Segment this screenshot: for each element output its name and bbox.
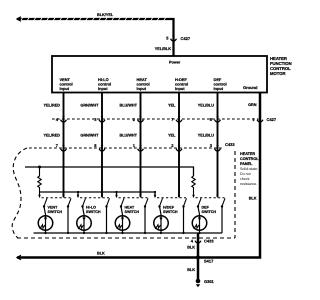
svg-text:HEATER: HEATER [270,56,287,61]
connector C433 dashed line [29,147,222,149]
connector C427 pin symbol 1 [62,116,65,119]
ground G301 [196,279,201,284]
wire lamp bus (line B) [40,191,156,194]
connector C427 pin symbol 3 [139,116,142,119]
svg-text:HEATER: HEATER [240,152,255,157]
connector C427 pin symbol 6 [259,116,262,119]
svg-text:control: control [214,82,227,87]
connector C427 pin symbol 4 [178,116,181,119]
lamp DEF illumination [192,216,207,231]
svg-text:DEF: DEF [214,78,222,83]
svg-text:1: 1 [133,144,136,149]
wire switch H/DEF output [182,207,184,234]
svg-text:SWITCH: SWITCH [48,210,63,215]
switch DEF left arm [198,198,201,206]
connector C433 pin symbol 2 [101,145,104,148]
switch H/DEF linkage dashes [157,197,186,199]
svg-text:Ground: Ground [243,86,257,91]
svg-text:7: 7 [56,144,59,149]
svg-text:GRN: GRN [248,103,256,108]
wire texture hatching [21,17,167,21]
svg-text:YEL/BLK: YEL/BLK [155,47,172,52]
node R1 on line A [38,166,41,169]
wire DEF control (YEL/BLU) [216,93,220,198]
svg-text:resistance.: resistance. [240,182,257,187]
svg-text:1: 1 [252,118,255,123]
svg-text:SWITCH: SWITCH [86,210,101,215]
svg-text:BLK: BLK [97,251,105,256]
svg-text:7: 7 [171,118,174,123]
switch HEAT right arm [145,198,148,206]
svg-text:YEL/BLU: YEL/BLU [198,103,215,108]
svg-text:input: input [98,87,108,92]
svg-text:Solid-state:: Solid-state: [240,167,258,172]
svg-text:GRN/WHT: GRN/WHT [80,133,98,138]
switch VENT left arm [44,198,47,206]
switch DEF linkage dashes [196,197,225,199]
connector C433 pin symbol 5 [216,145,219,148]
wire BLK/YEL top feed [17,19,174,56]
svg-text:G301: G301 [204,280,214,285]
lamp VENT illumination [38,216,53,231]
connector C433 pin symbol 1 [62,145,65,148]
switch H/DEF right arm [184,198,187,206]
switch VENT right arm [68,198,71,206]
connector C433 pin symbol 3 [139,145,142,148]
svg-text:DEF: DEF [202,205,210,210]
wire lamp VENT top [44,207,46,234]
lamp HI-LO illumination [77,216,92,231]
svg-text:PANEL: PANEL [240,162,253,167]
wire VENT control (YEL/RED) [62,93,66,198]
svg-text:input: input [175,87,185,92]
wire lamp HEAT top [121,207,123,234]
svg-text:Power: Power [169,60,180,65]
wire Ground GRN/BLK right side [17,93,260,258]
svg-text:SWITCH: SWITCH [202,210,217,215]
connector C427 pin symbol 5 [216,116,219,119]
wire switch DEF output [221,207,223,234]
lamp HEAT illumination [115,216,130,231]
svg-text:BLK: BLK [187,245,195,250]
connector C427 pin symbol 2 [101,116,104,119]
svg-text:input: input [60,87,70,92]
svg-text:BLK/YEL: BLK/YEL [97,13,113,18]
wire stub to left contact [115,192,118,197]
connector C427 pin 5 [172,35,175,38]
lamp H/DEF illumination [154,216,169,231]
svg-text:BLU/WHT: BLU/WHT [119,133,137,138]
wire lamp H/DEF top [160,207,162,234]
svg-text:YEL/RED: YEL/RED [44,103,61,108]
svg-text:control: control [98,82,111,87]
wire lamp HI-LO top [83,207,85,234]
heater control panel dashed outline left torn edge [12,148,27,238]
svg-text:5: 5 [166,36,169,41]
svg-text:BLK: BLK [249,196,257,201]
svg-text:control: control [137,82,150,87]
svg-text:HI-LO: HI-LO [98,78,109,83]
wire H-DEF control (YEL) [177,93,181,198]
svg-text:3: 3 [210,144,213,149]
switch HI-LO linkage dashes [80,197,109,199]
svg-text:MOTOR: MOTOR [270,71,286,76]
wire exit BLK to ground [196,233,201,281]
svg-text:VENT: VENT [60,78,71,83]
switch HI-LO left arm [83,198,86,206]
wire lamp feed bus (line A) [25,167,194,176]
wire switch HI-LO output [105,207,107,234]
resistor R2 illumination [192,176,196,197]
svg-text:YEL/RED: YEL/RED [44,133,61,138]
svg-text:control: control [175,82,188,87]
svg-text:8: 8 [94,144,97,149]
wire HEAT control (BLU/WHT) [139,93,143,198]
svg-text:SWITCH: SWITCH [163,210,178,215]
switch VENT terminal arrows [38,195,65,199]
svg-text:check: check [240,177,250,182]
svg-text:BLU/WHT: BLU/WHT [119,103,137,108]
svg-text:C433: C433 [204,239,214,244]
svg-text:2: 2 [171,144,174,149]
svg-text:CONTROL: CONTROL [270,66,291,71]
connector C433 pin symbol 4 [178,145,181,148]
svg-text:HI-LO: HI-LO [86,205,96,210]
switch DEF right arm [222,198,225,206]
svg-text:H/DEF: H/DEF [163,205,174,210]
svg-text:S417: S417 [204,259,214,264]
switch H/DEF left arm [160,198,163,206]
svg-text:4: 4 [191,239,194,244]
heater control panel dashed outline bottom edge [17,237,235,239]
svg-text:GRN/WHT: GRN/WHT [80,103,98,108]
wire arrow left end bottom [17,255,21,260]
wire switch VENT output [67,207,69,234]
svg-text:C427: C427 [181,37,191,42]
svg-text:FUNCTION: FUNCTION [270,61,292,66]
svg-text:H-DEF: H-DEF [175,78,187,83]
svg-text:HEAT: HEAT [137,78,147,83]
svg-text:input: input [137,87,147,92]
connector C427 dashed line [52,118,259,120]
svg-text:YEL: YEL [168,103,176,108]
wire stub to left contact [77,192,80,197]
op box heater function control motor [52,56,267,93]
switch HEAT terminal arrows [115,195,142,199]
svg-text:C433: C433 [225,143,235,148]
svg-text:HEAT: HEAT [125,205,135,210]
wire switch HEAT output [144,207,146,234]
wire stub to left contact [154,192,157,197]
node splice S417 [196,255,200,259]
switch HI-LO right arm [107,198,110,206]
svg-text:SWITCH: SWITCH [125,210,140,215]
switch HEAT left arm [121,198,124,206]
svg-text:4: 4 [56,118,59,123]
switch VENT linkage dashes [42,197,71,199]
svg-text:2: 2 [133,118,136,123]
svg-text:Do not: Do not [240,172,251,177]
svg-text:input: input [214,87,224,92]
wire ground collector bus [34,232,223,235]
svg-text:CONTROL: CONTROL [240,157,259,162]
heater control panel dashed outline right edge [234,151,236,238]
switch HI-LO terminal arrows [77,195,104,199]
wire HI-LO control (GRN/WHT) [100,93,104,198]
switch HEAT linkage dashes [119,197,148,199]
resistor R1 illumination [38,167,42,197]
svg-text:YEL/BLU: YEL/BLU [198,133,215,138]
svg-text:3: 3 [94,118,97,123]
connector C433 pin 4 [197,237,200,240]
svg-text:VENT: VENT [48,205,58,210]
svg-text:8: 8 [210,118,213,123]
switch DEF terminal arrows [192,195,219,199]
wire arrow left end top [17,17,21,22]
svg-text:control: control [60,82,73,87]
svg-text:YEL: YEL [168,133,176,138]
svg-text:BLK: BLK [187,268,195,273]
switch H/DEF terminal arrows [154,195,181,199]
wire lamp DEF top [198,207,200,234]
svg-text:C427: C427 [267,118,277,123]
